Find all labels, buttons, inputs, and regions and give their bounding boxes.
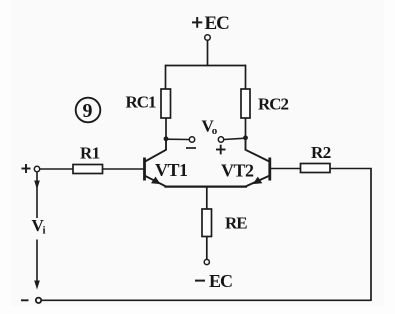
node VT2 collector junction [243,135,248,140]
svg-text:EC: EC [209,271,232,291]
resistor R1 [73,144,103,174]
wire right vertical [370,169,372,302]
svg-text:9: 9 [83,100,93,122]
svg-text:RE: RE [225,214,247,233]
power -EC label [195,271,232,291]
power +EC terminal [205,35,211,41]
output terminal Vo plus [218,137,223,142]
wire rail to RC2 [245,65,247,89]
label Vi [32,216,46,237]
source Vi arrow upper [34,173,40,219]
wire input to R1 [40,168,73,170]
wire VT2 base to R2 [271,168,301,170]
power +EC label [192,13,229,34]
svg-text:RC1: RC1 [126,93,157,112]
label minus polarity [186,147,196,149]
output terminal Vo minus [189,137,194,142]
label plus polarity [216,145,226,155]
svg-text:EC: EC [205,13,230,34]
transistor VT2 [221,138,270,187]
svg-text:o: o [212,125,218,137]
resistor RC1 [126,89,171,118]
wire R2 to right vertical [330,168,372,170]
source Vi arrow lower [34,240,40,290]
label input plus polarity [22,164,31,173]
wire bottom return [41,299,371,301]
wire emitter bus to RE [206,187,208,210]
svg-text:RC2: RC2 [258,95,289,114]
label input minus polarity [21,299,29,301]
figure label 9 (circled) [76,98,101,123]
svg-text:R1: R1 [80,144,100,163]
resistor RC2 [241,89,289,118]
wire RE to -EC terminal [206,237,208,260]
svg-text:i: i [43,225,46,237]
label Vo [202,117,218,138]
wire Vo right terminal to node [224,138,246,139]
wire node to Vo left terminal [166,138,189,140]
wire R1 to VT1 base [103,168,144,170]
svg-text:VT1: VT1 [155,160,188,180]
transistor VT1 [145,139,189,187]
resistor RE [202,209,247,237]
node VT1 collector junction [164,136,169,141]
wire +EC down to top rail [207,41,209,66]
wire RC1 to VT1 collector node [165,118,167,139]
wire top rail [166,65,247,67]
wire RC2 to VT2 collector node [245,118,247,138]
resistor R2 [301,143,331,173]
wire emitter bus [165,186,248,188]
svg-text:VT2: VT2 [221,161,254,181]
input terminal plus [34,166,39,171]
wire rail to RC1 [165,65,167,89]
svg-text:R2: R2 [311,143,331,162]
input terminal minus [36,298,41,303]
power -EC terminal [204,259,209,264]
